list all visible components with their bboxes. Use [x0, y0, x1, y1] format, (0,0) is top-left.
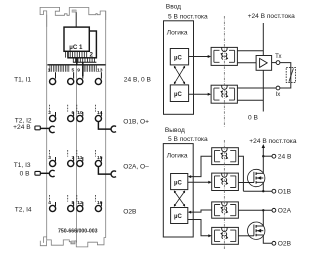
opto transformer 2 top — [211, 85, 237, 103]
svg-text:T1, I1: T1, I1 — [14, 76, 31, 83]
wire uCA to opto2 bottom — [188, 181, 211, 183]
wire driver to 0V — [262, 70, 264, 111]
wire contact14 to clamp row2 right — [98, 122, 111, 130]
svg-text:Логика: Логика — [167, 153, 188, 160]
uC box B top — [170, 85, 188, 102]
contact 7 — [68, 150, 75, 167]
contact 12 — [77, 195, 83, 212]
contact 4 — [48, 195, 55, 212]
opto transformer 3 bottom — [212, 202, 239, 219]
contact 10 — [77, 105, 83, 122]
contact 13 — [95, 68, 102, 85]
uC2 pins — [73, 58, 94, 62]
opto transformer 1 bottom — [212, 148, 239, 165]
wire resistor to Ix — [280, 82, 291, 88]
uC2 pin bus bar — [73, 61, 97, 63]
svg-text:24 В, 0 В: 24 В, 0 В — [124, 76, 152, 83]
svg-text:Вывод: Вывод — [165, 127, 185, 134]
svg-text:µC: µC — [174, 55, 182, 61]
contact 14 — [95, 105, 102, 122]
junction O1B — [262, 190, 264, 192]
wire driver to Tx — [272, 62, 277, 64]
clamp row3 right — [111, 171, 116, 177]
isolation dashdot bottom — [223, 140, 225, 250]
wire uCA to opto1 top — [189, 56, 210, 58]
svg-text:µC: µC — [174, 92, 182, 98]
contact 1 — [48, 68, 56, 85]
svg-text:+24 В пост.тока: +24 В пост.тока — [249, 138, 297, 145]
terminal O2B — [272, 241, 276, 245]
wire uCB to opto2 top — [189, 93, 210, 95]
svg-text:Тх: Тх — [275, 54, 281, 60]
wire uC1 bus down — [76, 58, 78, 65]
terminal O2A — [272, 208, 276, 212]
contact 11 — [77, 150, 83, 167]
svg-text:O1B, O+: O1B, O+ — [123, 118, 149, 125]
module housing top latch — [72, 10, 76, 12]
svg-text:750-666/000-003: 750-666/000-003 — [58, 228, 98, 234]
wire opto3 to uCB bottom — [190, 210, 212, 212]
wire O2A node to M2 drain — [262, 210, 264, 226]
uC box B bottom — [171, 208, 188, 224]
svg-text:11: 11 — [77, 155, 82, 161]
wire contact15 to clamp row3 right — [98, 167, 111, 175]
wire opto2 to 0V rail — [237, 99, 263, 101]
wire opto1 to uCA bottom — [190, 156, 212, 176]
opto transformer 1 top — [211, 47, 237, 65]
junction 24V — [262, 155, 264, 157]
opto transformer 2 bottom — [212, 173, 239, 191]
svg-text:Ввод: Ввод — [166, 4, 181, 11]
svg-text:T2, I4: T2, I4 — [15, 206, 32, 213]
crossed arrows bottom diagram — [175, 192, 185, 206]
junction O2A — [262, 209, 264, 211]
svg-text:5 В пост.тока: 5 В пост.тока — [168, 136, 208, 143]
wire opto4 to gate M2 — [238, 235, 254, 237]
svg-text:O1B: O1B — [278, 189, 292, 196]
isolation dashdot top — [223, 16, 225, 128]
transistor Q1 — [248, 169, 265, 186]
svg-text:O2B: O2B — [278, 241, 292, 248]
svg-text:2: 2 — [90, 51, 94, 58]
svg-text:µC: µC — [174, 214, 182, 220]
wire opto2 to gate M1 — [238, 182, 254, 184]
wire opto1 to rail — [237, 50, 263, 52]
resistor load R1 — [286, 68, 295, 83]
terminal comb bar row1 — [47, 64, 105, 66]
terminal O1B — [272, 189, 276, 193]
wire opto1 down to O1B node — [238, 156, 243, 191]
module left edge — [46, 15, 48, 241]
svg-text:24 В: 24 В — [278, 153, 292, 160]
wire connector to clamp row2 — [40, 127, 50, 129]
microcontroller uC1 — [64, 27, 89, 51]
contact 15 — [95, 150, 102, 167]
contact 3 — [48, 150, 55, 167]
wire from top contact to uC1 — [75, 12, 77, 27]
clamp row3 left — [49, 170, 54, 176]
svg-text:T1, I3: T1, I3 — [14, 162, 31, 169]
terminal Ix — [276, 86, 280, 90]
wire Tx to resistor — [280, 63, 291, 68]
contact 5 — [68, 68, 75, 85]
module right edge — [105, 11, 107, 238]
svg-text:Логика: Логика — [167, 30, 188, 37]
wire uC2 bus down — [82, 62, 84, 76]
svg-text:+24 В пост.тока: +24 В пост.тока — [248, 13, 296, 20]
wire connector to clamp row3 — [40, 172, 49, 174]
module housing top profile — [40, 7, 106, 26]
wire opto3 to O2A — [238, 209, 272, 211]
terminal comb teeth row1 left — [50, 65, 69, 72]
wire M1 source down — [262, 182, 264, 191]
svg-text:12: 12 — [77, 200, 83, 206]
module bottom latch — [72, 241, 75, 244]
module center divider — [76, 65, 78, 243]
wire +24V rail top — [262, 23, 264, 56]
svg-text:+24 В: +24 В — [13, 124, 31, 131]
svg-text:µC: µC — [174, 180, 182, 186]
module housing bottom profile — [40, 237, 105, 247]
wire source node to O1B — [243, 190, 272, 192]
svg-text:0 В: 0 В — [248, 115, 258, 122]
clamp row2 left — [49, 126, 54, 132]
microcontroller uC2 (behind) — [68, 31, 96, 58]
contact 9 — [77, 68, 83, 85]
svg-text:1: 1 — [48, 68, 51, 74]
contact 16 — [95, 195, 102, 212]
svg-text:µC 1: µC 1 — [69, 44, 83, 51]
svg-text:0 В: 0 В — [20, 171, 30, 178]
logic box bottom — [163, 144, 193, 237]
wire M2 source to O2B — [263, 235, 272, 243]
wire +24V rail bottom with arrow — [262, 147, 264, 174]
svg-text:5 В пост.тока: 5 В пост.тока — [168, 14, 208, 21]
svg-text:10: 10 — [77, 110, 83, 116]
svg-text:O2B: O2B — [123, 209, 137, 216]
terminal Tx — [276, 61, 280, 65]
contact 8 — [68, 195, 75, 212]
uC1 pins — [66, 51, 87, 57]
wire opto1 to driver — [237, 62, 256, 64]
svg-text:O2A, O–: O2A, O– — [123, 164, 149, 171]
transistor Q2 — [248, 222, 265, 239]
svg-text:O2A: O2A — [278, 208, 292, 215]
wire Ix to opto2 — [237, 87, 276, 89]
uC box A top — [170, 49, 188, 65]
logic box top — [164, 21, 194, 115]
clamp row2 right — [111, 126, 116, 132]
svg-text:Ix: Ix — [276, 92, 281, 98]
terminal comb teeth row1 right — [83, 65, 97, 72]
contact 6 — [68, 105, 75, 122]
uC box A bottom — [171, 174, 188, 190]
wire to 24V terminal — [263, 155, 272, 157]
svg-text:9: 9 — [77, 68, 80, 74]
opto transformer 4 bottom — [212, 227, 239, 244]
contact 2 — [48, 105, 55, 122]
crossed arrows top diagram — [175, 67, 185, 83]
driver U1 — [256, 56, 272, 71]
wire uCB to opto4 bottom — [188, 220, 211, 236]
terminal 24V — [272, 154, 276, 158]
connector 0V — [35, 171, 40, 175]
connector +24V — [35, 126, 40, 130]
